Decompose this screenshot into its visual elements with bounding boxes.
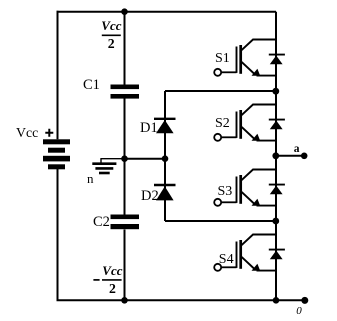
fraction bar bottom Vcc/2 bbox=[102, 279, 122, 281]
switch S3: IGBT bbox=[214, 170, 276, 206]
junction dot: rail bottom bbox=[273, 297, 280, 304]
junction dot: top bus / middle column bbox=[121, 8, 128, 15]
freewheel diode of S2 bbox=[269, 120, 285, 130]
label C2 bbox=[93, 214, 110, 231]
terminal dot 0 bbox=[301, 297, 308, 304]
wire: middle column above C1 bbox=[124, 12, 126, 85]
label D1 bbox=[140, 120, 158, 137]
label S2 bbox=[215, 116, 230, 132]
switch S1: IGBT bbox=[214, 40, 276, 76]
freewheel diode of S3 bbox=[269, 185, 285, 195]
wire: top bus bbox=[57, 11, 277, 13]
wire: output stub to terminal a bbox=[276, 155, 304, 157]
label Vcc (battery) bbox=[16, 125, 38, 141]
ground n symbol bbox=[92, 164, 116, 173]
wire: middle column below C2 bbox=[124, 230, 126, 301]
switch S4: IGBT bbox=[214, 235, 276, 271]
battery plus sign bbox=[45, 129, 53, 137]
junction dot: clamp midpoint bbox=[162, 155, 169, 162]
label n bbox=[87, 171, 94, 187]
wire: ground stub bbox=[101, 158, 125, 162]
label 2 denominator (bottom) bbox=[109, 281, 116, 297]
capacitor C1 bbox=[111, 85, 140, 99]
junction dot: middle column / neutral wire bbox=[121, 155, 128, 162]
label 2 denominator (top) bbox=[108, 36, 115, 52]
wire: clamp diode branch vertical bbox=[164, 91, 166, 221]
freewheel diode of S4 bbox=[269, 250, 285, 260]
freewheel diode of S1 bbox=[269, 55, 285, 65]
fraction bar top Vcc/2 bbox=[102, 34, 121, 36]
wire: bottom bus bbox=[57, 299, 306, 301]
clamp diode D1 bbox=[154, 119, 176, 133]
label a bbox=[294, 143, 300, 155]
label -Vcc/2 numerator (bottom) bbox=[102, 263, 122, 279]
junction dot: rail node a bbox=[272, 152, 279, 159]
terminal dot a bbox=[301, 153, 308, 160]
junction dot: bottom bus / middle column bbox=[121, 297, 128, 304]
capacitor C2 bbox=[111, 215, 140, 230]
clamp diode D2 bbox=[154, 185, 176, 200]
battery Vcc bbox=[43, 139, 70, 169]
wire: right rail bbox=[275, 12, 277, 301]
wire: left column lower segment bbox=[57, 169, 59, 300]
label S1 bbox=[215, 51, 230, 67]
switch S2: IGBT bbox=[214, 105, 276, 141]
label S4 bbox=[219, 252, 234, 268]
wire: middle column between C1 and C2 bbox=[124, 99, 126, 215]
label 0 bbox=[296, 305, 302, 317]
label Vcc/2 numerator (top) bbox=[101, 18, 121, 34]
label C1 bbox=[83, 77, 100, 94]
minus sign bottom fraction bbox=[93, 279, 99, 281]
wire: neutral wire to clamp midpoint bbox=[125, 158, 166, 160]
wire: D1 top to S1-S2 junction bbox=[165, 90, 276, 92]
label S3 bbox=[218, 184, 233, 200]
junction dot: rail S3-S4 bbox=[272, 218, 279, 225]
wire: D2 bottom to S3-S4 junction bbox=[165, 220, 276, 222]
junction dot: rail S1-S2 bbox=[272, 88, 279, 95]
wire: left column upper segment bbox=[57, 11, 59, 140]
label D2 bbox=[141, 188, 159, 205]
